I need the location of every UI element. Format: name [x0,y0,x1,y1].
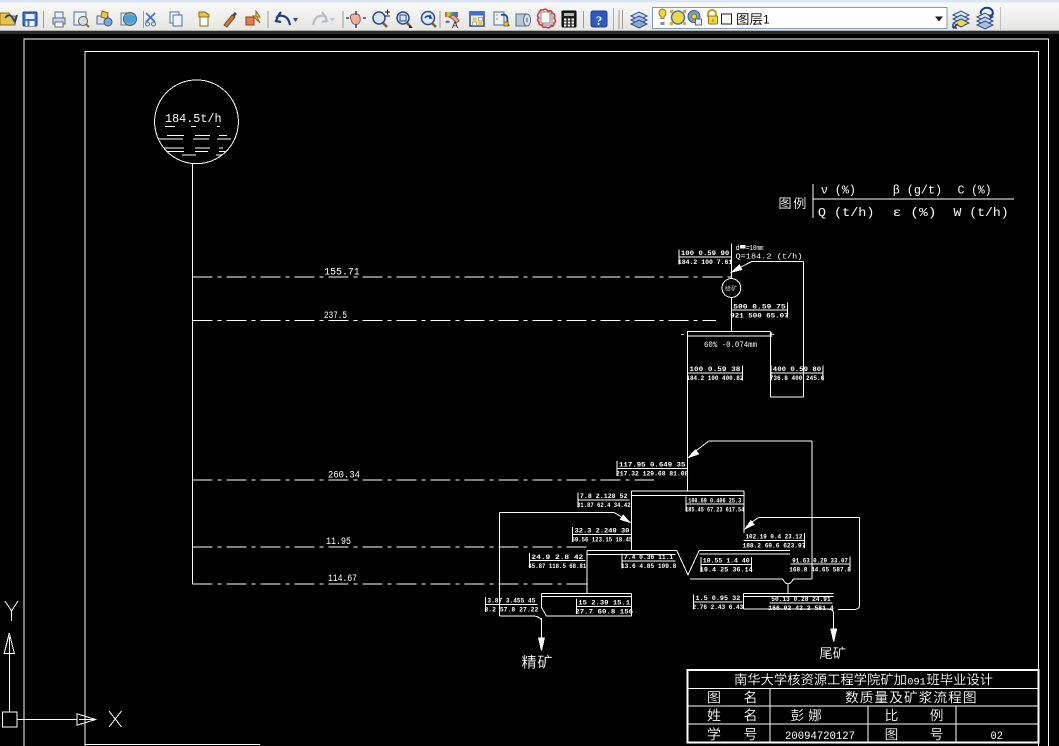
svg-text:45.87 118.5 68.81: 45.87 118.5 68.81 [528,563,586,570]
svg-text:ν (%): ν (%) [821,183,856,197]
svg-text:100.69 0.406 25.3: 100.69 0.406 25.3 [688,497,741,504]
svg-text:736.8 400 245.6: 736.8 400 245.6 [770,375,824,382]
svg-text:Q=184.2 (t/h): Q=184.2 (t/h) [736,254,803,262]
svg-text:102.19 0.4 23.12: 102.19 0.4 23.12 [746,534,803,541]
svg-text:11.95: 11.95 [326,537,351,548]
svg-text:13.6 4.85 109.8: 13.6 4.85 109.8 [621,563,676,570]
svg-text:237.5: 237.5 [324,311,347,322]
svg-text:60% -0.074mm: 60% -0.074mm [704,341,757,350]
svg-text:91.63 0.29 33.07: 91.63 0.29 33.07 [792,557,848,564]
svg-text:C (%): C (%) [958,183,992,197]
svg-text:31.87 62.4 34.42: 31.87 62.4 34.42 [577,502,631,509]
svg-text:1: 1 [763,13,770,27]
svg-text:+: + [769,331,775,342]
svg-text:59.56 123.15 18.45: 59.56 123.15 18.45 [572,537,633,544]
svg-text:20094720127: 20094720127 [785,731,855,743]
svg-text:8.2 57.8 27.22: 8.2 57.8 27.22 [484,607,538,614]
svg-text:7.8 2.128 52: 7.8 2.128 52 [580,493,628,500]
svg-text:10.55 1.4 40: 10.55 1.4 40 [703,558,750,565]
svg-text:=10mm: =10mm [746,245,764,253]
svg-text:184.2 100 400.82: 184.2 100 400.82 [686,375,743,382]
svg-text:02: 02 [991,731,1004,743]
svg-text:?: ? [596,13,603,28]
svg-text:A: A [452,20,458,30]
svg-text:d: d [736,245,740,253]
svg-text:32.3 2.249 30: 32.3 2.249 30 [575,528,630,535]
svg-text:166.02 42.2 581.4: 166.02 42.2 581.4 [768,605,833,612]
svg-text:217.32 129.68 81.08: 217.32 129.68 81.08 [616,471,688,478]
svg-text:β (g/t): β (g/t) [893,183,942,197]
svg-text:3.87 3.455 45: 3.87 3.455 45 [487,598,535,605]
svg-text:117.95 0.649 35: 117.95 0.649 35 [619,462,686,469]
svg-text:921 500 65.07: 921 500 65.07 [730,312,788,319]
svg-text:19.4 25 36.14: 19.4 25 36.14 [700,567,753,574]
svg-text:114.67: 114.67 [328,574,357,585]
svg-text:185.45 67.23 617.54: 185.45 67.23 617.54 [685,506,744,513]
svg-text:2.76 2.43 6.43: 2.76 2.43 6.43 [693,604,744,611]
svg-text:1.5 0.95 32: 1.5 0.95 32 [696,595,741,602]
svg-text:24.9 2.8 42: 24.9 2.8 42 [531,554,583,561]
svg-text:15 2.39 15.1: 15 2.39 15.1 [578,600,630,607]
svg-text:155.71: 155.71 [324,268,359,279]
svg-text:W (t/h): W (t/h) [954,206,1009,220]
svg-text:184.2 100 7.61: 184.2 100 7.61 [678,259,732,266]
svg-text:Q (t/h): Q (t/h) [818,206,875,220]
svg-text:168.8 44.65 587.8: 168.8 44.65 587.8 [789,566,851,573]
svg-text:100 0.59 38: 100 0.59 38 [689,366,740,373]
svg-text:7.4 0.36 11.1: 7.4 0.36 11.1 [624,554,673,561]
svg-text:188.2 69.6 623.97: 188.2 69.6 623.97 [743,543,806,550]
svg-text:-: - [680,331,686,342]
svg-text:260.34: 260.34 [328,470,360,481]
svg-text:27.7 60.8 156: 27.7 60.8 156 [575,609,633,616]
svg-text:500 0.59 75: 500 0.59 75 [733,303,785,310]
svg-text:091: 091 [907,676,926,688]
svg-text:ε (%): ε (%) [893,206,937,220]
svg-text:184.5t/h: 184.5t/h [165,112,222,126]
svg-text:400 0.59 80: 400 0.59 80 [773,366,821,373]
svg-text:50.13 0.28 24.91: 50.13 0.28 24.91 [771,596,830,603]
svg-text:100 0.59 90: 100 0.59 90 [681,250,729,257]
